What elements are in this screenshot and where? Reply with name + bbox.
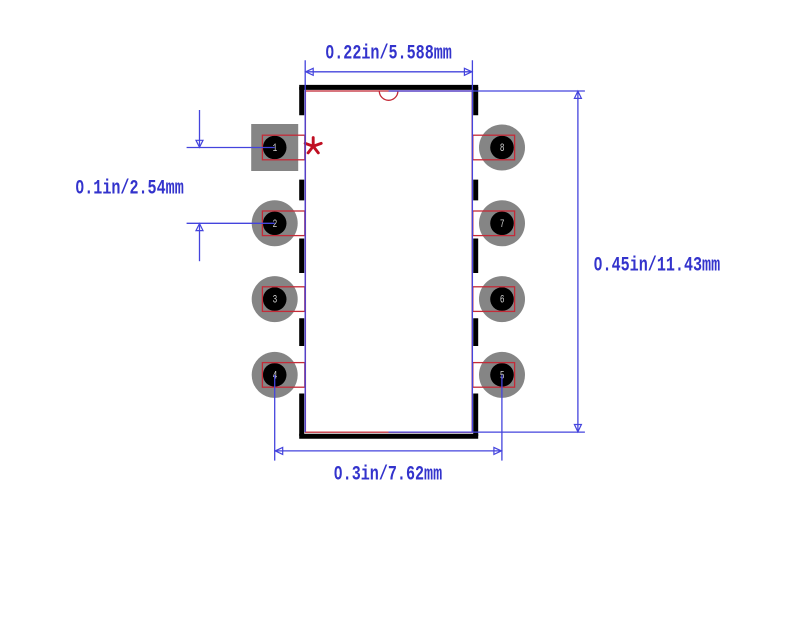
body width extension line left (blue) (304, 60, 306, 432)
pad 6 (473, 276, 525, 322)
row pitch extension line pin4 (blue) (274, 375, 276, 461)
pad 3 (252, 276, 305, 322)
pin 1 marker asterisk (red) (305, 138, 321, 153)
height extension line top (blue) (389, 90, 585, 92)
top dimension right arrow (464, 68, 472, 75)
silkscreen bottom edge (black) (299, 434, 478, 439)
pad 8 (473, 125, 525, 171)
svg-text:0.3in/7.62mm: 0.3in/7.62mm (334, 464, 443, 487)
pad 5 (473, 352, 525, 398)
top dimension line (305, 71, 472, 73)
pad 2 (252, 200, 305, 246)
silkscreen right edge dashes (black) (473, 87, 478, 436)
svg-text:6: 6 (500, 293, 505, 306)
left dimension upper arrow (196, 140, 203, 147)
row pitch extension line pin5 (blue) (501, 375, 503, 461)
pad 4 (252, 352, 305, 398)
courtyard outline (red) (305, 91, 472, 432)
pin pitch extension line pin1 (blue) (187, 147, 275, 149)
svg-text:3: 3 (273, 293, 278, 306)
right dimension line (577, 91, 579, 432)
left dimension line upper segment (199, 110, 201, 148)
bottom dimension right arrow (494, 447, 502, 454)
zero glyph dot covers (328, 50, 331, 53)
svg-text:0.45in/11.43mm: 0.45in/11.43mm (594, 255, 721, 278)
body width extension line right (blue) (471, 60, 473, 432)
svg-text:0.22in/5.588mm: 0.22in/5.588mm (325, 43, 452, 66)
right dimension bottom arrow (574, 425, 581, 432)
silkscreen top edge (black) (299, 85, 478, 90)
svg-text:7: 7 (500, 218, 505, 231)
bottom dimension line (275, 450, 502, 452)
pin-1 index notch (red arc) (379, 91, 398, 100)
height extension line bottom (blue) (389, 431, 585, 433)
svg-text:8: 8 (500, 142, 505, 155)
left dimension line lower segment (199, 223, 201, 261)
top dimension left arrow (306, 68, 314, 75)
svg-text:0.1in/2.54mm: 0.1in/2.54mm (75, 178, 184, 201)
pin pitch extension line pin2 (blue) (187, 222, 275, 224)
left dimension lower arrow (196, 224, 203, 231)
silkscreen left edge dashes (black) (299, 87, 304, 436)
pad 7 (473, 200, 525, 246)
right dimension top arrow (574, 91, 581, 98)
bottom dimension left arrow (275, 447, 283, 454)
pad 1 (square, pin 1) (251, 124, 305, 171)
